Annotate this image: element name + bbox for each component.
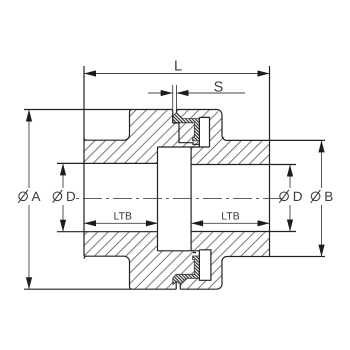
dim L line: [84, 73, 270, 75]
hub right lower section (hatched): [180, 232, 269, 290]
arrow D-left top: [60, 163, 66, 175]
arrow S left: [161, 90, 173, 96]
flange bottom right + corner + face + fillet: [180, 256, 325, 289]
arrow B top: [318, 140, 324, 152]
svg-text:D: D: [293, 189, 303, 204]
dim D right line: [289, 165, 291, 189]
dim LTB left: [84, 222, 158, 224]
jaw pocket interior upper (hatched): [173, 123, 200, 147]
slot left lower: [175, 281, 177, 289]
arrow D-left bottom: [60, 220, 66, 232]
left hub OD bottom: [84, 256, 132, 289]
arrow B bottom: [318, 245, 324, 257]
slot right lower: [179, 285, 181, 290]
arrow LTB-left left: [84, 220, 96, 226]
svg-text:D: D: [66, 189, 76, 204]
spider elastomer upper (dense hatch): [173, 113, 200, 141]
center column right side: [190, 147, 192, 251]
jaw pocket step lower: [193, 252, 196, 254]
centerline: [76, 198, 282, 200]
hub left lower section (hatched): [84, 232, 176, 290]
svg-text:A: A: [32, 189, 41, 204]
svg-text:B: B: [324, 189, 333, 204]
flange top left: [24, 109, 173, 111]
slot right upper: [176, 110, 178, 113]
arrow LTB-right right: [258, 220, 270, 226]
label dia A: [18, 190, 28, 203]
svg-text:S: S: [214, 80, 224, 96]
bore top left: [57, 162, 158, 164]
arrow D-right top: [287, 165, 293, 177]
pocket rect lower: [199, 250, 211, 280]
column bottom line: [158, 250, 200, 252]
bore bottom left: [57, 231, 158, 233]
left hub OD top: [84, 109, 132, 140]
bore top right: [191, 164, 296, 166]
svg-text:L: L: [174, 59, 182, 75]
arrow A top: [26, 110, 32, 122]
dim D left line: [62, 163, 64, 188]
svg-text:LTB: LTB: [221, 211, 239, 223]
dim B line: [321, 140, 323, 188]
S extension right: [176, 85, 178, 110]
arrow L left: [84, 70, 96, 76]
slot left upper (jaw face): [172, 110, 174, 124]
label dia D left: [53, 190, 63, 203]
jaw pocket interior lower (hatched): [176, 251, 199, 274]
pocket rect upper: [199, 117, 209, 147]
flange top right + corner + face + fillet: [177, 109, 326, 140]
arrow S right: [177, 90, 189, 96]
center column left side: [157, 147, 159, 251]
label dia D right: [279, 190, 289, 203]
column top line: [158, 146, 210, 148]
bore bottom right: [191, 231, 296, 233]
arrow D-right bottom: [287, 220, 293, 232]
dim S line left: [148, 92, 173, 94]
arrow L right: [258, 70, 270, 76]
arrow A bottom: [26, 277, 32, 289]
dim A line: [28, 110, 30, 189]
right hub face: [269, 66, 271, 257]
label dia B: [311, 190, 321, 203]
spider elastomer lower (dense hatch): [173, 256, 200, 285]
hub left upper section (hatched): [84, 110, 173, 164]
S extension left: [172, 85, 174, 110]
jaw pocket step upper: [173, 123, 200, 144]
hub right upper section (hatched): [177, 110, 270, 165]
flange bottom left: [24, 288, 176, 290]
arrow LTB-left right: [146, 220, 158, 226]
dim S line right: [177, 92, 246, 94]
svg-text:LTB: LTB: [114, 211, 132, 223]
left hub face: [83, 66, 85, 256]
arrow LTB-right left: [191, 220, 203, 226]
dim LTB right: [191, 222, 269, 224]
